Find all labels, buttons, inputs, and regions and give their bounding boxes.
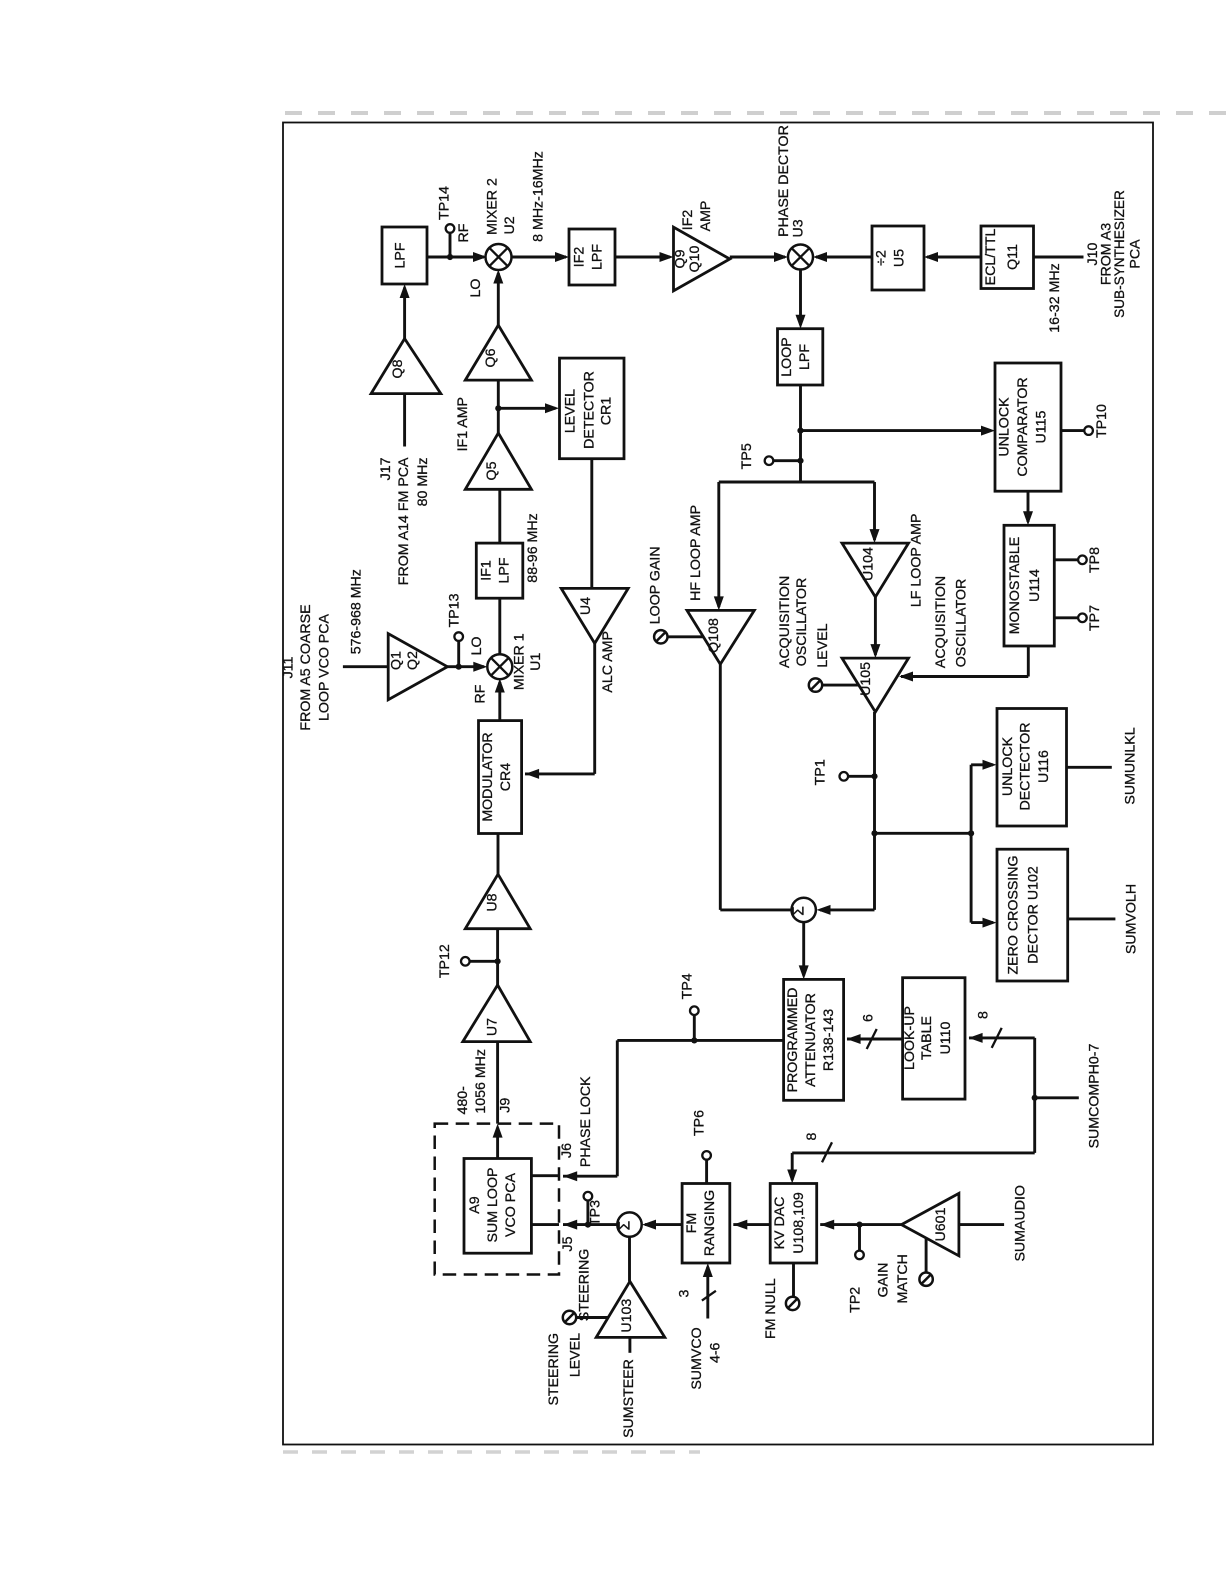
arrowhead into KV DAC top bbox=[787, 1170, 797, 1184]
amp U601 bbox=[901, 1193, 959, 1255]
amp U4 (ALC) bbox=[561, 588, 628, 643]
dashed box A9 sum loop VCO bbox=[435, 1124, 559, 1275]
wire sigma2 to J5 bbox=[563, 1223, 617, 1226]
wire LOOP LPF down to tee bbox=[799, 385, 802, 482]
arrowhead into attenuator right bbox=[847, 1034, 861, 1044]
wire into U116 bbox=[971, 763, 993, 766]
svg-text:U103: U103 bbox=[619, 1299, 635, 1333]
svg-text:U108,109: U108,109 bbox=[791, 1192, 807, 1254]
svg-text:U8: U8 bbox=[485, 893, 501, 911]
svg-text:PROGRAMMED: PROGRAMMED bbox=[785, 988, 801, 1093]
amp U105 (acquisition osc) bbox=[842, 658, 909, 712]
wire phase lock left to J6 bbox=[563, 1175, 617, 1178]
svg-text:Q108: Q108 bbox=[706, 618, 722, 653]
test point TP14 bbox=[446, 224, 455, 233]
box MODULATOR CR4 bbox=[479, 721, 522, 834]
wire lookup to attenuator bbox=[847, 1038, 903, 1041]
box ECL/TTL Q11 bbox=[981, 226, 1034, 289]
arrowhead into monostable bbox=[1023, 511, 1033, 525]
svg-text:SUMSTEER: SUMSTEER bbox=[621, 1359, 637, 1438]
bus slash 3 bbox=[702, 1291, 716, 1301]
svg-text:TP1: TP1 bbox=[813, 759, 829, 785]
svg-text:Q8: Q8 bbox=[390, 359, 406, 378]
svg-text:STEERING: STEERING bbox=[546, 1333, 562, 1406]
wire U7 to U8 bbox=[496, 929, 499, 985]
svg-text:LF LOOP AMP: LF LOOP AMP bbox=[908, 514, 924, 608]
svg-text:U7: U7 bbox=[485, 1018, 501, 1036]
wire Q9 amp to phase detector bbox=[730, 256, 785, 259]
svg-text:6: 6 bbox=[861, 1014, 877, 1022]
wire SUMSTEER stub bbox=[628, 1337, 631, 1352]
bus slash 6 bbox=[867, 1029, 877, 1049]
svg-text:Q11: Q11 bbox=[1005, 244, 1021, 270]
test point TP6 stem bbox=[705, 1160, 708, 1184]
svg-text:Q5: Q5 bbox=[484, 461, 500, 480]
svg-text:R138-143: R138-143 bbox=[821, 1009, 837, 1071]
svg-text:ZERO CROSSING: ZERO CROSSING bbox=[1006, 855, 1022, 974]
arrowhead into mixer2 (LO) bbox=[493, 270, 503, 284]
arrowhead J6 bbox=[563, 1171, 577, 1181]
svg-text:LO: LO bbox=[469, 636, 485, 655]
svg-text:U114: U114 bbox=[1027, 569, 1043, 602]
wire TP7 stub bbox=[1054, 616, 1078, 619]
svg-text:TABLE: TABLE bbox=[919, 1016, 935, 1060]
svg-text:KV DAC: KV DAC bbox=[772, 1197, 788, 1250]
svg-text:480-: 480- bbox=[455, 1086, 471, 1115]
svg-text:OSCILLATOR: OSCILLATOR bbox=[954, 579, 970, 668]
junction dot level detector bbox=[495, 405, 501, 411]
svg-text:U115: U115 bbox=[1034, 410, 1050, 443]
box UNLOCK DECTECTOR U116 bbox=[997, 709, 1067, 827]
svg-text:IF2: IF2 bbox=[572, 247, 588, 268]
wire ECL/TTL to U5 bbox=[927, 256, 981, 259]
svg-text:J17: J17 bbox=[378, 457, 394, 480]
box LOOP LPF bbox=[778, 329, 823, 385]
arrowhead into LOOP LPF bbox=[796, 315, 806, 329]
svg-text:UNLOCK: UNLOCK bbox=[1000, 736, 1016, 796]
svg-text:COMPARATOR: COMPARATOR bbox=[1015, 377, 1031, 476]
mixer U1 (MIXER 1) bbox=[487, 654, 512, 679]
wire modulator to mixer1 bbox=[498, 682, 501, 721]
box LOOK-UP TABLE U110 bbox=[903, 978, 965, 1099]
wire branch to unlock comparator bbox=[801, 429, 992, 432]
wire mixer1 to IF1 LPF bbox=[498, 598, 501, 654]
wire phase det to LOOP LPF bbox=[799, 270, 802, 326]
wire Q108 output down bbox=[719, 664, 722, 910]
svg-text:TP8: TP8 bbox=[1087, 547, 1103, 573]
svg-text:PCA: PCA bbox=[1128, 239, 1144, 269]
svg-text:8: 8 bbox=[804, 1133, 820, 1141]
junction dot TP14 bbox=[447, 254, 453, 260]
wire monostable to U105 (left) bbox=[901, 675, 1028, 678]
svg-text:ACQUISITION: ACQUISITION bbox=[777, 576, 793, 668]
arrowhead into Q108 bbox=[714, 596, 724, 610]
junction dot TP13 bbox=[456, 664, 462, 670]
svg-text:Q2: Q2 bbox=[405, 651, 421, 670]
svg-text:LPF: LPF bbox=[393, 242, 409, 268]
test point TP3 bbox=[584, 1192, 593, 1201]
amp U104 (LF LOOP AMP) bbox=[842, 543, 909, 597]
svg-text:4-6: 4-6 bbox=[707, 1342, 723, 1363]
arrowhead into sigma2 bbox=[642, 1220, 656, 1230]
border frame bbox=[283, 123, 1153, 1445]
test point TP3 stem bbox=[586, 1201, 589, 1225]
box MONOSTABLE U114 bbox=[1004, 525, 1054, 646]
wire FM ranging to sigma2 bbox=[645, 1223, 682, 1226]
svg-text:U4: U4 bbox=[578, 597, 594, 615]
arrowhead into attenuator bbox=[799, 965, 809, 979]
wire U115 to TP10 bbox=[1061, 429, 1084, 432]
arrowhead into lookup bbox=[969, 1033, 983, 1043]
svg-text:3: 3 bbox=[676, 1290, 692, 1298]
svg-text:IF1: IF1 bbox=[479, 560, 495, 581]
arrowhead into level detector bbox=[545, 403, 559, 413]
test point TP1 stem bbox=[848, 775, 874, 778]
svg-text:SUMAUDIO: SUMAUDIO bbox=[1012, 1185, 1028, 1261]
junction dot branch split bbox=[968, 830, 974, 836]
wire phase lock down bbox=[616, 1040, 619, 1176]
amp Q5 bbox=[465, 433, 531, 489]
arrowhead J5 bbox=[563, 1220, 577, 1230]
box FM RANGING bbox=[682, 1184, 730, 1264]
svg-text:8 MHz-16MHz: 8 MHz-16MHz bbox=[531, 151, 547, 242]
test point TP4 bbox=[690, 1006, 699, 1015]
adjust STEERING LEVEL bbox=[563, 1311, 576, 1324]
wire U4 down bbox=[593, 643, 596, 774]
wire LPF to mixer2 bbox=[427, 256, 484, 259]
svg-text:TP3: TP3 bbox=[588, 1200, 604, 1226]
wire sigma1 left input bbox=[820, 908, 875, 911]
junction dot TP4 bbox=[691, 1037, 697, 1043]
svg-text:LEVEL: LEVEL bbox=[568, 1333, 584, 1377]
svg-text:÷2: ÷2 bbox=[874, 250, 890, 266]
junction dot TP12 bbox=[495, 958, 501, 964]
svg-text:U5: U5 bbox=[892, 249, 908, 267]
svg-text:LOOP: LOOP bbox=[779, 337, 795, 376]
svg-text:MONOSTABLE: MONOSTABLE bbox=[1007, 537, 1023, 635]
svg-text:80 MHz: 80 MHz bbox=[415, 458, 431, 507]
wire tee horizontal bbox=[719, 481, 875, 484]
svg-text:DECTECTOR: DECTECTOR bbox=[1017, 722, 1033, 810]
svg-text:CR4: CR4 bbox=[498, 763, 514, 791]
wire Q108 output right to sigma bbox=[720, 908, 791, 911]
box IF1 LPF bbox=[476, 543, 523, 598]
svg-text:RF: RF bbox=[456, 223, 472, 242]
svg-text:U1: U1 bbox=[528, 653, 544, 671]
svg-text:TP10: TP10 bbox=[1094, 404, 1110, 438]
arrowhead into U102 bbox=[983, 918, 997, 928]
junction dot TP3 bbox=[585, 1222, 591, 1228]
junction dot detector branch bbox=[871, 830, 877, 836]
svg-text:IF1 AMP: IF1 AMP bbox=[455, 397, 471, 451]
summer sigma2 bbox=[617, 1212, 641, 1236]
svg-text:LEVEL: LEVEL bbox=[815, 623, 831, 667]
wire U601 gain match stem bbox=[925, 1238, 928, 1273]
svg-text:U3: U3 bbox=[791, 219, 807, 237]
svg-text:FROM A5 COARSE: FROM A5 COARSE bbox=[298, 604, 314, 730]
arrowhead into U105 bbox=[870, 644, 880, 658]
arrowhead into modulator bbox=[525, 769, 539, 779]
svg-text:ALC AMP: ALC AMP bbox=[600, 631, 616, 693]
svg-text:J9: J9 bbox=[497, 1098, 513, 1113]
svg-text:SUM LOOP: SUM LOOP bbox=[485, 1168, 501, 1243]
svg-text:SUMVOLH: SUMVOLH bbox=[1124, 884, 1140, 954]
box LEVEL DETECTOR CR1 bbox=[560, 358, 625, 459]
wire steering level to U103 bbox=[576, 1316, 608, 1319]
svg-text:OSCILLATOR: OSCILLATOR bbox=[794, 578, 810, 667]
wire sumcomph vertical bbox=[1033, 1038, 1036, 1153]
wire tee left down to Q108 bbox=[717, 482, 720, 607]
wire 3-bus into FM ranging bbox=[706, 1267, 709, 1319]
wire mixer2 to IF2 LPF bbox=[511, 256, 566, 259]
amp U103 bbox=[596, 1281, 665, 1337]
test point TP12 bbox=[461, 957, 470, 966]
box divide-by-2 U5 bbox=[872, 226, 924, 290]
arrowhead into unlock comparator bbox=[981, 426, 995, 436]
svg-text:TP2: TP2 bbox=[848, 1287, 864, 1313]
wire Q8 to LPF bbox=[403, 288, 406, 339]
wire KV DAC to FM NULL bbox=[792, 1263, 795, 1297]
test point TP14 stem bbox=[449, 233, 452, 257]
wire J5 inside bbox=[531, 1223, 559, 1226]
wire SUMCOMPH stub bbox=[1035, 1096, 1079, 1099]
svg-text:TP5: TP5 bbox=[739, 443, 755, 469]
arrowhead into mixer2 bbox=[473, 252, 487, 262]
svg-text:IF2: IF2 bbox=[680, 210, 696, 231]
test point TP5 bbox=[765, 456, 774, 465]
svg-text:SUMVCO: SUMVCO bbox=[689, 1327, 705, 1389]
amp U8 bbox=[465, 874, 530, 929]
svg-text:LPF: LPF bbox=[590, 244, 606, 270]
svg-text:TP7: TP7 bbox=[1087, 605, 1103, 631]
svg-text:LO: LO bbox=[468, 279, 484, 298]
wire TP8 stub bbox=[1054, 558, 1078, 561]
svg-text:Σ: Σ bbox=[617, 1221, 634, 1231]
svg-text:ECL/TTL: ECL/TTL bbox=[983, 229, 999, 286]
svg-text:VCO PCA: VCO PCA bbox=[503, 1173, 519, 1237]
test point TP6 bbox=[702, 1151, 711, 1160]
amp Q108 (HF LOOP AMP) bbox=[687, 610, 754, 664]
test point TP5 stem bbox=[773, 459, 801, 462]
svg-text:LOOP GAIN: LOOP GAIN bbox=[648, 546, 664, 624]
svg-text:LOOK-UP: LOOK-UP bbox=[902, 1006, 918, 1070]
wire branch down to U102 bbox=[970, 833, 973, 922]
junction dot unlock branch bbox=[797, 428, 803, 434]
box LPF bbox=[382, 227, 427, 284]
svg-text:16-32 MHz: 16-32 MHz bbox=[1047, 263, 1063, 332]
mixer U3 (PHASE DECTOR) bbox=[788, 245, 813, 270]
wire SUMVOLH stub bbox=[1068, 917, 1116, 920]
svg-text:PHASE DECTOR: PHASE DECTOR bbox=[776, 125, 792, 237]
wire Q1 amp to mixer1 bbox=[447, 665, 484, 668]
svg-text:LPF: LPF bbox=[497, 557, 513, 583]
svg-text:UNLOCK: UNLOCK bbox=[997, 397, 1013, 457]
test point TP8 bbox=[1078, 556, 1087, 565]
arrowhead into mixer1 (RF) bbox=[495, 679, 505, 693]
test point TP10 bbox=[1084, 426, 1093, 435]
arrowhead into FM ranging bbox=[733, 1220, 747, 1230]
svg-text:RANGING: RANGING bbox=[702, 1190, 718, 1256]
box ZERO CROSSING DECTOR U102 bbox=[997, 849, 1068, 981]
junction dot TP1 bbox=[871, 773, 877, 779]
arrowhead into U104 bbox=[870, 529, 880, 543]
wire tee right down to U104 bbox=[873, 482, 876, 540]
wire ALC to modulator bbox=[525, 772, 595, 775]
svg-text:SUMUNLKL: SUMUNLKL bbox=[1122, 727, 1138, 804]
wire IF1 LPF to Q5 bbox=[498, 489, 501, 543]
svg-text:TP6: TP6 bbox=[692, 1110, 708, 1136]
adjust GAIN MATCH bbox=[919, 1273, 932, 1286]
svg-text:J5: J5 bbox=[560, 1236, 576, 1251]
wire loop gain to Q108 bbox=[668, 635, 704, 638]
svg-text:TP4: TP4 bbox=[679, 973, 695, 999]
arrowhead into U105 right bbox=[899, 672, 913, 682]
svg-text:A9: A9 bbox=[467, 1196, 483, 1213]
svg-text:1056 MHz: 1056 MHz bbox=[473, 1049, 489, 1114]
svg-text:MIXER 1: MIXER 1 bbox=[511, 633, 527, 690]
junction dot TP5 bbox=[797, 458, 803, 464]
arrowhead 3-bus bbox=[703, 1263, 713, 1277]
wire 8-bus into lookup bbox=[969, 1036, 1035, 1039]
wire attenuator output left bbox=[617, 1039, 783, 1042]
test point TP4 stem bbox=[693, 1015, 696, 1040]
arrowhead into mixer1 (LO) bbox=[473, 662, 487, 672]
svg-text:FM NULL: FM NULL bbox=[763, 1278, 779, 1339]
svg-text:LOOP VCO PCA: LOOP VCO PCA bbox=[317, 613, 333, 721]
svg-text:U601: U601 bbox=[933, 1207, 949, 1241]
svg-text:576-968 MHz: 576-968 MHz bbox=[349, 569, 365, 654]
amp Q6 bbox=[465, 325, 531, 380]
wire VCO output J9 bbox=[496, 1128, 499, 1159]
svg-text:FROM A14 FM PCA: FROM A14 FM PCA bbox=[396, 457, 412, 585]
svg-text:STEERING: STEERING bbox=[577, 1249, 593, 1322]
wire branch right bbox=[875, 832, 972, 835]
arrowhead into IF2 LPF bbox=[555, 252, 569, 262]
box A9 SUM LOOP VCO PCA bbox=[464, 1159, 531, 1254]
test point TP1 bbox=[840, 772, 849, 781]
wire into U102 bbox=[971, 921, 993, 924]
arrowhead into phase detector right bbox=[813, 252, 827, 262]
svg-text:PHASE LOCK: PHASE LOCK bbox=[578, 1076, 594, 1167]
wire J10 input stub bbox=[1034, 256, 1084, 259]
arrowhead into U116 bbox=[983, 760, 997, 770]
wire monostable to U105 (down) bbox=[1027, 646, 1030, 677]
amp Q9 Q10 (IF2 AMP) bbox=[674, 227, 730, 291]
wire Q5 to junction bbox=[497, 380, 500, 433]
wire KV DAC to FM ranging bbox=[733, 1223, 770, 1226]
svg-text:TP13: TP13 bbox=[447, 593, 463, 627]
adjust LOOP GAIN bbox=[654, 630, 667, 643]
summer sigma1 bbox=[792, 898, 816, 922]
amp U7 bbox=[463, 985, 530, 1042]
arrowhead into sigma1 bbox=[817, 905, 831, 915]
wire SUMAUDIO stub bbox=[959, 1223, 1004, 1226]
wire sigma1 to attenuator bbox=[802, 922, 805, 975]
svg-text:DECTOR U102: DECTOR U102 bbox=[1026, 866, 1042, 964]
svg-text:U110: U110 bbox=[938, 1021, 954, 1054]
wire 8-bus to KV DAC (horiz) bbox=[792, 1151, 1034, 1154]
wire to level detector bbox=[498, 407, 555, 410]
wire J11 input bbox=[343, 665, 388, 668]
svg-text:88-96 MHz: 88-96 MHz bbox=[525, 513, 541, 582]
svg-text:RF: RF bbox=[473, 684, 489, 703]
svg-text:Q10: Q10 bbox=[687, 245, 703, 272]
box PROGRAMMED ATTENUATOR R138-143 bbox=[784, 979, 844, 1100]
svg-text:CR1: CR1 bbox=[599, 397, 615, 425]
wire U601 to KV DAC bbox=[820, 1223, 901, 1226]
test point TP13 bbox=[454, 632, 463, 641]
svg-text:Q1: Q1 bbox=[388, 651, 404, 670]
svg-text:LEVEL: LEVEL bbox=[562, 389, 578, 433]
svg-text:TP14: TP14 bbox=[437, 186, 453, 220]
svg-text:U104: U104 bbox=[860, 547, 876, 581]
wire level det to U4 bbox=[590, 459, 593, 589]
svg-text:LPF: LPF bbox=[797, 344, 813, 370]
svg-text:DETECTOR: DETECTOR bbox=[581, 371, 597, 449]
svg-text:U116: U116 bbox=[1036, 750, 1052, 783]
wire U104 to U105 bbox=[874, 597, 877, 655]
wire branch up to U116 bbox=[970, 765, 973, 834]
wire J9 to U7 bbox=[496, 1042, 499, 1124]
adjust FM NULL bbox=[786, 1297, 799, 1310]
junction dot TP2 bbox=[856, 1222, 862, 1228]
test point TP2 bbox=[855, 1251, 864, 1260]
svg-text:SUB-SYNTHESIZER: SUB-SYNTHESIZER bbox=[1112, 190, 1127, 318]
wire acq level to U105 bbox=[822, 684, 859, 687]
box UNLOCK COMPARATOR U115 bbox=[995, 363, 1061, 491]
box KV DAC U108,109 bbox=[770, 1184, 817, 1264]
svg-text:U105: U105 bbox=[858, 662, 874, 696]
svg-text:HF LOOP AMP: HF LOOP AMP bbox=[688, 505, 704, 601]
wire Q6 to mixer2 (LO) bbox=[497, 273, 500, 325]
arrowhead into Q9 Q10 amp bbox=[660, 252, 674, 262]
bus slash 8 (lookup) bbox=[992, 1028, 1002, 1048]
svg-text:ATTENUATOR: ATTENUATOR bbox=[803, 993, 819, 1087]
test point TP13 stem bbox=[457, 641, 460, 667]
box IF2 LPF bbox=[569, 229, 615, 285]
scan smudge top bbox=[285, 111, 1226, 115]
bus slash 8 (kvdac) bbox=[822, 1142, 832, 1162]
svg-text:J11: J11 bbox=[280, 656, 296, 678]
wire U115 to monostable bbox=[1027, 491, 1030, 522]
svg-text:GAIN: GAIN bbox=[876, 1263, 892, 1298]
arrowhead J9 up bbox=[493, 1124, 503, 1138]
svg-text:MATCH: MATCH bbox=[895, 1254, 911, 1303]
wire U103 to sigma2 bbox=[628, 1237, 631, 1282]
arrowhead into LPF bbox=[400, 284, 410, 298]
svg-text:MIXER 2: MIXER 2 bbox=[485, 178, 501, 235]
svg-text:8: 8 bbox=[976, 1011, 992, 1019]
adjust ACQUISITION OSCILLATOR LEVEL bbox=[809, 678, 822, 691]
mixer U2 (MIXER 2) bbox=[486, 244, 512, 270]
junction dot SUMCOMPH bbox=[1032, 1095, 1038, 1101]
svg-text:SUMCOMPH0-7: SUMCOMPH0-7 bbox=[1087, 1043, 1103, 1148]
svg-text:Σ: Σ bbox=[791, 906, 808, 916]
scan smudge bottom bbox=[283, 1450, 700, 1454]
wire U5 to phase detector bbox=[816, 256, 872, 259]
svg-text:AMP: AMP bbox=[698, 201, 714, 232]
arrowhead into phase detector bbox=[774, 252, 788, 262]
wire U105 to sigma1 bbox=[873, 712, 876, 910]
svg-text:ACQUISITION: ACQUISITION bbox=[933, 576, 949, 668]
test point TP2 stem bbox=[858, 1225, 861, 1251]
test point TP7 bbox=[1078, 614, 1087, 623]
wire IF2 LPF to Q9 Q10 amp bbox=[615, 256, 670, 259]
svg-text:U2: U2 bbox=[502, 216, 518, 234]
wire SUMUNLKL stub bbox=[1067, 766, 1112, 769]
wire 8-bus to KV DAC (down) bbox=[791, 1153, 794, 1180]
amp Q1 Q2 bbox=[388, 634, 447, 700]
